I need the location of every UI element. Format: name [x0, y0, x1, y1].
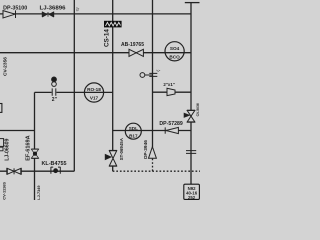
svg-text:B17: B17 — [129, 134, 138, 139]
instrument bubble RO-18/V17 — [84, 83, 103, 102]
svg-text:AB-19765: AB-19765 — [121, 42, 144, 48]
wire H2 line CV-2356 — [0, 52, 191, 54]
check valve DP-57289 — [165, 127, 178, 133]
svg-text:LJ-7349: LJ-7349 — [37, 186, 41, 200]
svg-text:252: 252 — [188, 195, 196, 200]
wire dashed instrument line horizontal — [113, 170, 200, 172]
svg-text:LJ-36896: LJ-36896 — [40, 6, 66, 12]
check valve DP-35100 — [3, 10, 16, 18]
svg-text:2": 2" — [52, 97, 58, 103]
svg-text:OP-3946: OP-3946 — [143, 140, 149, 160]
off-page connector box cut at left edge — [0, 104, 2, 113]
vent assembly with dot and circle on H3 — [52, 77, 57, 96]
svg-text:¼": ¼" — [156, 69, 161, 73]
vent triangle at bottom of V4 — [149, 147, 157, 159]
ball valve KL-B4755 on H6 — [51, 167, 60, 174]
svg-text:DP-35100: DP-35100 — [3, 5, 27, 11]
svg-text:EF-6169A: EF-6169A — [25, 135, 31, 161]
valve AB-19765 — [129, 49, 143, 56]
wire H3b reducer line — [153, 91, 192, 93]
svg-text:LJ-06609: LJ-06609 — [5, 138, 11, 160]
svg-text:KL-B4755: KL-B4755 — [42, 161, 67, 167]
svg-text:ST-06945A: ST-06945A — [119, 137, 124, 160]
svg-text:V17: V17 — [90, 96, 99, 101]
blind double-tick on V5 — [186, 151, 196, 154]
valve EF-6169A on V1 — [31, 149, 38, 159]
wire V2 riser — [73, 0, 75, 171]
wire H5 line to DP-57289 — [113, 130, 191, 132]
reducer 2"x1" — [167, 88, 175, 95]
wire H4 left stub line — [0, 130, 35, 132]
connector box N92 40-16 252 — [184, 184, 200, 200]
component inline silencer (black box on V3) — [104, 21, 122, 28]
valve LJ-06609 bowtie on H6 — [7, 168, 21, 175]
wire H6 bottom line KL — [0, 170, 74, 172]
svg-text:RO-18: RO-18 — [87, 87, 101, 92]
wire V5 right riser — [190, 3, 192, 185]
svg-text:CV-5036: CV-5036 — [196, 103, 200, 116]
wire dashed instrument line below vent triangle V4 — [152, 159, 154, 172]
wire V1 EF-6169A riser — [34, 92, 36, 200]
wire V3 CS-14 riser — [112, 0, 114, 171]
blind with circle on V4 — [140, 73, 157, 78]
control valve CV-5036 on V5 — [184, 110, 195, 122]
valve LJ-36896 — [42, 12, 54, 17]
wire V4 riser — [152, 0, 154, 147]
instrument bubble SO4/BCO — [165, 42, 184, 61]
svg-text:DP-57289: DP-57289 — [159, 121, 183, 127]
svg-text:2"x1": 2"x1" — [163, 82, 175, 87]
control valve ST-06945 on V3 — [105, 150, 117, 166]
off-page connector boxes cut at left edge — [0, 139, 4, 147]
instrument bubble SDL/B17 — [125, 123, 141, 139]
svg-text:CV-2356: CV-2356 — [2, 57, 8, 76]
wire H1 top header line — [0, 13, 191, 15]
node T-bar top of V5 — [185, 2, 200, 4]
svg-text:CV-1116S: CV-1116S — [2, 182, 7, 200]
wire H3 vent line left — [35, 91, 113, 93]
svg-text:SO4: SO4 — [170, 46, 180, 51]
svg-text:BCO: BCO — [169, 55, 180, 60]
svg-text:CS-14: CS-14 — [103, 29, 110, 47]
svg-text:¾": ¾" — [76, 7, 80, 12]
svg-text:SDL: SDL — [129, 126, 138, 131]
